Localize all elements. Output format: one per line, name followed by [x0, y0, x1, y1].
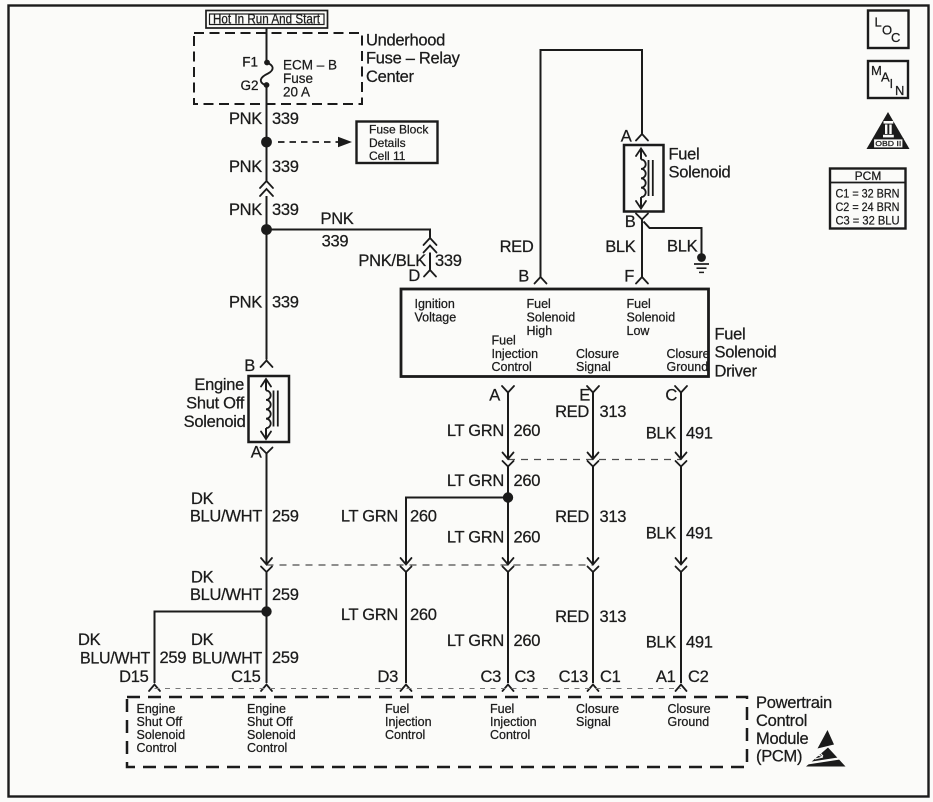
svg-text:PNK: PNK — [229, 158, 262, 176]
svg-text:Fuel: Fuel — [715, 326, 746, 344]
svg-text:PNK: PNK — [229, 110, 262, 128]
fuel solenoid coil — [624, 145, 664, 212]
svg-text:Signal: Signal — [576, 715, 611, 729]
svg-text:Injection: Injection — [490, 715, 537, 729]
svg-text:Ignition: Ignition — [415, 297, 455, 311]
svg-text:259: 259 — [272, 508, 299, 526]
svg-text:BLU/WHT: BLU/WHT — [190, 586, 262, 604]
svg-text:260: 260 — [514, 472, 541, 490]
svg-text:Powertrain: Powertrain — [756, 694, 832, 712]
wire LT GRN 260 main to connector 2 — [447, 498, 540, 565]
svg-text:LT GRN: LT GRN — [341, 606, 398, 624]
svg-text:C3: C3 — [481, 668, 502, 686]
connector chevrons BLK — [676, 558, 687, 572]
svg-text:Shut Off: Shut Off — [247, 715, 293, 729]
svg-text:(PCM): (PCM) — [756, 748, 802, 766]
svg-text:PNK: PNK — [229, 294, 262, 312]
connector chevrons DK BLU/WHT — [261, 558, 272, 572]
terminal D3 — [378, 668, 412, 691]
svg-text:Control: Control — [137, 741, 177, 755]
label Underhood Fuse-Relay Center — [366, 32, 461, 87]
wire PNK/BLK 339 to terminal D — [358, 252, 461, 270]
PCM pin function: Closure Signal — [576, 702, 619, 729]
label Powertrain Control Module (PCM) — [756, 694, 832, 766]
terminal A of fuel solenoid — [621, 128, 648, 146]
dashed reference arrow to Fuse Block Details — [278, 137, 352, 147]
svg-text:LT GRN: LT GRN — [447, 422, 504, 440]
fuse F1/G2 ECM-B Fuse 20 A — [240, 55, 337, 100]
svg-text:RED: RED — [500, 238, 534, 256]
Underhood Fuse-Relay Center dashed box — [194, 33, 362, 104]
svg-text:RED: RED — [555, 403, 589, 421]
svg-text:339: 339 — [322, 233, 349, 251]
svg-text:A: A — [251, 444, 262, 462]
wire DK BLU/WHT 259 solenoid A to connector — [190, 454, 299, 565]
terminal B of fuel solenoid — [625, 213, 648, 231]
svg-text:A: A — [621, 128, 632, 146]
in-line connector C2 dashed line — [267, 564, 594, 566]
svg-text:259: 259 — [160, 649, 187, 667]
svg-text:C15: C15 — [231, 668, 260, 686]
wire DK BLU/WHT 259 branch to D15 — [78, 612, 267, 684]
svg-text:LT GRN: LT GRN — [447, 472, 504, 490]
svg-text:Control: Control — [490, 728, 530, 742]
wire RED driver B up over to fuel solenoid A — [500, 50, 642, 277]
wire DK BLU/WHT 259 main to C15 — [191, 612, 299, 684]
svg-text:Solenoid: Solenoid — [247, 728, 296, 742]
svg-text:259: 259 — [272, 649, 299, 667]
wire PNK 339 junction2 down to solenoid B — [229, 230, 299, 360]
PCM pin function: Closure Ground — [668, 702, 711, 729]
svg-text:RED: RED — [555, 608, 589, 626]
PCM connector legend table — [830, 169, 906, 229]
svg-text:Signal: Signal — [576, 360, 611, 374]
wire RED 313 mid segment — [555, 467, 626, 565]
svg-text:Driver: Driver — [715, 363, 758, 381]
svg-text:BLK: BLK — [646, 525, 677, 543]
wire LT GRN 260 main lower to C3 — [447, 572, 540, 683]
wire BLK fuel solenoid B to driver F — [605, 220, 642, 273]
svg-text:Module: Module — [756, 730, 808, 748]
off-page double chevron on PNK wire — [260, 181, 273, 196]
LOC legend box — [868, 11, 909, 49]
wire LT GRN 260 driver A to connector — [447, 393, 540, 467]
svg-text:Fuel: Fuel — [385, 702, 409, 716]
svg-text:OBD II: OBD II — [875, 139, 901, 148]
svg-text:491: 491 — [686, 634, 713, 652]
wire RED 313 driver E to connector — [555, 393, 626, 467]
svg-text:Solenoid: Solenoid — [627, 311, 676, 325]
svg-text:C2: C2 — [688, 668, 709, 686]
svg-text:Closure: Closure — [576, 702, 619, 716]
off-page double chevron on PNK/BLK wire — [424, 238, 437, 253]
svg-text:D: D — [408, 267, 420, 285]
ground G103 — [694, 253, 709, 272]
svg-text:260: 260 — [410, 606, 437, 624]
svg-text:313: 313 — [600, 508, 627, 526]
svg-text:Fuel: Fuel — [492, 334, 516, 348]
svg-text:PNK: PNK — [320, 210, 353, 228]
ESD sensitivity triangles — [806, 730, 846, 767]
MAIN legend box — [868, 61, 908, 98]
terminal C13 / C1 — [559, 668, 621, 691]
terminal B of engine shut off solenoid — [244, 357, 272, 375]
svg-text:Fuel: Fuel — [627, 297, 651, 311]
Powertrain Control Module dashed box — [127, 697, 747, 767]
terminal F of driver — [624, 268, 648, 286]
svg-text:Cell 11: Cell 11 — [369, 149, 406, 163]
svg-text:491: 491 — [686, 425, 713, 443]
in-line connector C1 dashed line — [508, 459, 681, 461]
OBD II triangle symbol — [867, 112, 910, 149]
terminal B of driver (top) — [518, 268, 546, 286]
svg-text:D15: D15 — [119, 668, 148, 686]
PCM pin function: Engine Shut Off Solenoid Control (D15) — [137, 702, 186, 755]
svg-text:G2: G2 — [240, 78, 258, 93]
terminal D15 — [119, 668, 160, 691]
svg-text:Fuel: Fuel — [669, 146, 700, 164]
svg-text:Engine: Engine — [137, 702, 176, 716]
svg-text:LT GRN: LT GRN — [447, 529, 504, 547]
svg-text:Closure: Closure — [667, 347, 710, 361]
PCM pin function: Engine Shut Off Solenoid Control (C15) — [247, 702, 296, 755]
svg-text:BLU/WHT: BLU/WHT — [192, 650, 262, 668]
svg-text:Hot In Run And Start: Hot In Run And Start — [213, 12, 320, 27]
label Engine Shut Off Solenoid — [184, 376, 246, 431]
svg-text:LT GRN: LT GRN — [341, 508, 398, 526]
svg-text:313: 313 — [600, 608, 627, 626]
svg-text:C3: C3 — [515, 668, 536, 686]
svg-text:Fuel: Fuel — [490, 702, 514, 716]
svg-text:Control: Control — [247, 741, 287, 755]
svg-text:B: B — [244, 357, 255, 375]
junction node (fuse block tap) — [261, 137, 272, 148]
svg-text:RED: RED — [555, 508, 589, 526]
svg-text:Center: Center — [366, 68, 415, 86]
wire BLK 491 mid segment — [646, 467, 713, 565]
svg-text:LT GRN: LT GRN — [447, 632, 504, 650]
terminal C3 / C3 — [481, 668, 536, 691]
svg-text:Fuel: Fuel — [527, 297, 551, 311]
wire BLK 491 driver C to connector — [646, 393, 713, 467]
svg-text:Engine: Engine — [247, 702, 286, 716]
wire PNK 339 fuse to junction — [229, 85, 299, 142]
svg-text:Fuse Block: Fuse Block — [369, 123, 429, 137]
svg-text:Low: Low — [627, 324, 651, 338]
wire PNK 339 chevrons to junction 2 — [229, 196, 299, 230]
wire from Hot In Run box to fuse F1 — [266, 28, 268, 61]
svg-text:C1: C1 — [600, 668, 621, 686]
svg-text:PCM: PCM — [855, 169, 882, 183]
svg-text:C: C — [665, 387, 677, 405]
label: Hot In Run And Start box — [206, 11, 328, 29]
svg-text:A: A — [489, 387, 500, 405]
svg-text:A1: A1 — [656, 668, 676, 686]
terminal C15 — [231, 668, 272, 691]
svg-text:313: 313 — [600, 403, 627, 421]
svg-text:Underhood: Underhood — [366, 32, 445, 50]
svg-text:F: F — [624, 268, 634, 286]
svg-text:Solenoid: Solenoid — [137, 728, 186, 742]
svg-text:F1: F1 — [242, 55, 258, 70]
svg-text:BLK: BLK — [646, 425, 677, 443]
wire BLK branch to ground — [644, 222, 702, 256]
svg-text:339: 339 — [272, 158, 299, 176]
svg-text:DK: DK — [78, 631, 101, 649]
svg-text:Shut Off: Shut Off — [186, 395, 245, 413]
svg-text:Voltage: Voltage — [415, 311, 457, 325]
label Fuel Solenoid Driver — [715, 326, 777, 381]
svg-text:C2 = 24 BRN: C2 = 24 BRN — [836, 200, 900, 214]
svg-text:E: E — [579, 387, 590, 405]
svg-text:Solenoid: Solenoid — [669, 164, 731, 182]
svg-text:Details: Details — [369, 136, 406, 150]
wire LT GRN 260 connector to junction — [447, 467, 540, 498]
PCM pin function: Fuel Injection Control (C3) — [490, 702, 537, 742]
svg-text:BLK: BLK — [605, 238, 636, 256]
svg-text:Ground: Ground — [667, 360, 709, 374]
svg-text:Injection: Injection — [492, 347, 539, 361]
terminal A of engine shut off solenoid — [251, 444, 273, 462]
svg-text:Shut Off: Shut Off — [137, 715, 183, 729]
svg-text:Control: Control — [492, 360, 532, 374]
svg-text:DK: DK — [191, 490, 214, 508]
svg-text:L: L — [875, 15, 882, 30]
svg-text:Control: Control — [385, 728, 425, 742]
svg-text:Fuse – Relay: Fuse – Relay — [366, 50, 461, 68]
svg-text:Closure: Closure — [668, 702, 711, 716]
svg-text:BLK: BLK — [646, 634, 677, 652]
svg-text:Control: Control — [756, 712, 807, 730]
terminal E of driver (bottom) — [579, 386, 599, 405]
junction node to PNK/BLK branch — [261, 224, 272, 235]
svg-text:20 A: 20 A — [283, 85, 310, 100]
connector chevrons LT GRN branch — [401, 558, 412, 572]
svg-text:C1 = 32 BRN: C1 = 32 BRN — [836, 187, 900, 201]
wire BLK 491 lower to C2 — [646, 572, 713, 683]
wire LT GRN 260 branch lower to D3 — [341, 572, 437, 683]
svg-text:Ground: Ground — [668, 715, 710, 729]
svg-text:PNK: PNK — [229, 201, 262, 219]
svg-text:Injection: Injection — [385, 715, 432, 729]
svg-text:260: 260 — [514, 529, 541, 547]
svg-text:High: High — [527, 324, 553, 338]
svg-text:260: 260 — [514, 422, 541, 440]
wire PNK 339 junction to off-page chevrons — [229, 142, 299, 181]
fuel solenoid driver box U1 — [401, 289, 710, 377]
connector chevrons RED — [588, 558, 599, 572]
svg-text:Closure: Closure — [576, 347, 619, 361]
wire PNK 339 branch horizontal to D — [267, 210, 431, 251]
svg-text:BLU/WHT: BLU/WHT — [80, 650, 150, 668]
terminal A1 / C2 — [656, 668, 709, 691]
terminal C of driver (bottom) — [665, 386, 687, 405]
svg-text:C: C — [891, 30, 900, 45]
svg-text:339: 339 — [272, 294, 299, 312]
svg-text:491: 491 — [686, 525, 713, 543]
svg-text:BLU/WHT: BLU/WHT — [190, 508, 262, 526]
svg-text:Solenoid: Solenoid — [527, 311, 576, 325]
label: Fuse Block Details Cell 11 box — [357, 122, 438, 164]
svg-text:I: I — [890, 76, 894, 91]
svg-text:C3 = 32 BLU: C3 = 32 BLU — [836, 214, 900, 228]
svg-text:Engine: Engine — [194, 376, 244, 394]
terminal D of driver — [408, 267, 436, 285]
svg-text:N: N — [895, 83, 904, 98]
svg-text:260: 260 — [410, 508, 437, 526]
terminal A of driver (bottom) — [489, 386, 514, 405]
wire DK BLU/WHT 259 connector to junction 3 — [190, 569, 299, 612]
svg-text:339: 339 — [435, 252, 462, 270]
junction node DK BLU/WHT split — [261, 606, 271, 616]
svg-text:339: 339 — [272, 110, 299, 128]
svg-text:259: 259 — [272, 586, 299, 604]
PCM connector face dashed line — [155, 688, 682, 690]
junction node LT GRN split — [503, 492, 513, 502]
engine shut off solenoid coil — [249, 376, 290, 442]
PCM pin function: Fuel Injection Control (D3) — [385, 702, 432, 742]
wire RED 313 lower to C1 — [555, 572, 626, 683]
svg-text:260: 260 — [514, 632, 541, 650]
wire LT GRN 260 branch to D3 column — [341, 498, 508, 565]
svg-text:Solenoid: Solenoid — [715, 344, 777, 362]
svg-text:Solenoid: Solenoid — [184, 413, 246, 431]
svg-text:DK: DK — [191, 569, 214, 587]
svg-text:BLK: BLK — [667, 238, 698, 256]
svg-text:D3: D3 — [378, 668, 399, 686]
connector chevrons LT GRN main — [503, 558, 514, 572]
svg-text:B: B — [518, 268, 529, 286]
svg-text:B: B — [625, 213, 636, 231]
svg-text:339: 339 — [272, 201, 299, 219]
svg-text:C13: C13 — [559, 668, 588, 686]
label Fuel Solenoid — [669, 146, 731, 182]
svg-text:DK: DK — [191, 631, 214, 649]
